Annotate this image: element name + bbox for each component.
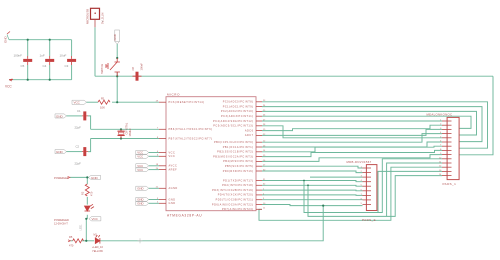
svg-text:16MHz: 16MHz: [128, 128, 132, 137]
wire: PB4 to pads1 pin9: [262, 155, 442, 162]
svg-text:GND: GND: [4, 36, 8, 44]
svg-text:MICRO: MICRO: [167, 93, 180, 97]
ground flag above switch (vertical): [113, 30, 119, 44]
wire: PB5 to mdb pin1: [262, 166, 363, 168]
wire: bottom LED rail to right and up: [100, 206, 323, 241]
wire: under-mdb wrap u1 to pads1 pin10: [304, 159, 442, 213]
MDB pin stubs: [363, 168, 372, 205]
svg-text:PD1(TXD/PCINT17): PD1(TXD/PCINT17): [223, 179, 254, 182]
wire: bottom rail left of LED: [82, 240, 94, 242]
supply VCC flag (reset pullup): [72, 100, 87, 105]
svg-text:+LED_10: +LED_10: [92, 245, 103, 249]
ground flag for C2: [55, 150, 67, 154]
svg-text:LED1: LED1: [80, 224, 83, 231]
wire: PD5 to mdb pin9 with LED junction: [262, 205, 363, 206]
svg-text:ADC6: ADC6: [245, 129, 254, 132]
svg-text:YELLOW: YELLOW: [92, 249, 103, 253]
wire: ADC6 to pads1 pin2: [262, 125, 442, 130]
wire: GND flag to GND pin 2: [149, 202, 159, 204]
svg-text:MEALONKONOC: MEALONKONOC: [427, 113, 453, 117]
svg-text:PC0(ADC0/PCINT8): PC0(ADC0/PCINT8): [223, 101, 254, 104]
resistor R2 470 (vertical): [85, 184, 89, 196]
svg-text:1uF: 1uF: [40, 54, 45, 58]
svg-text:PB3(MOSI/OC2A/PCINT3): PB3(MOSI/OC2A/PCINT3): [213, 155, 253, 158]
svg-text:C3: C3: [65, 64, 69, 68]
svg-text:22pF: 22pF: [75, 126, 82, 130]
wire: cap bank bottom rail: [9, 79, 72, 81]
wire: ADC7 to pads1 pin3: [262, 129, 442, 135]
LED1 power (vertical): [85, 204, 95, 211]
svg-text:PADS_E: PADS_E: [362, 218, 376, 222]
supply VCC bottom-left arrow: [5, 79, 13, 89]
capacitor C4: [45, 56, 54, 65]
svg-text:AVCC: AVCC: [169, 165, 178, 168]
svg-text:22pF: 22pF: [75, 162, 82, 166]
IC right pin stubs: [256, 102, 262, 210]
svg-text:VCC: VCC: [169, 151, 176, 154]
svg-text:PC1(ADC1/PCINT9): PC1(ADC1/PCINT9): [223, 105, 254, 108]
svg-text:10K: 10K: [100, 106, 105, 110]
svg-text:R5: R5: [69, 235, 73, 239]
svg-text:AGND: AGND: [169, 187, 178, 190]
wire: junction down to bottom rail: [85, 219, 87, 241]
wire: R2 to LED: [86, 197, 88, 205]
connector PADS_1: [427, 113, 460, 187]
svg-text:MICROUSB: MICROUSB: [86, 9, 90, 24]
svg-text:10uF: 10uF: [60, 54, 67, 58]
ground flag power led: [89, 175, 101, 180]
capacitor C5: [23, 56, 32, 65]
wire: XTAL1 line: [91, 128, 159, 130]
svg-text:PC4(ADC4/SDA/PCINT12): PC4(ADC4/SDA/PCINT12): [213, 120, 254, 123]
node: switch top: [116, 57, 118, 59]
svg-text:C4: C4: [43, 64, 47, 68]
svg-text:GND: GND: [137, 202, 143, 206]
wire: LED to VCC junction: [86, 215, 88, 219]
wire: PD3 to mdb pin7: [262, 194, 363, 197]
wire: VCC flag to IC VCC pin 1: [149, 152, 159, 154]
capacitor C1: [82, 111, 88, 120]
svg-text:PC2(ADC2/PCINT10): PC2(ADC2/PCINT10): [221, 110, 254, 113]
svg-text:R1: R1: [101, 97, 105, 101]
svg-text:POWERLED: POWERLED: [54, 218, 69, 222]
net arrow at R5: [68, 240, 71, 242]
wire: PB0 to pads1 pin4: [262, 134, 442, 143]
svg-text:PADS_1: PADS_1: [443, 182, 457, 186]
resistor R5 470 bottom: [73, 239, 84, 243]
capacitor C2: [82, 147, 88, 156]
svg-text:100nF: 100nF: [140, 63, 144, 71]
net POWERLED arrow label: [54, 176, 70, 180]
PADS_1 pin numbers: [439, 120, 442, 177]
svg-text:SWITCH: SWITCH: [100, 64, 104, 74]
wire: PB2 to pads1 pin7: [262, 146, 442, 152]
svg-text:PD6(AIN0/OC0A/PCINT22): PD6(AIN0/OC0A/PCINT22): [212, 203, 254, 206]
IC pin names left column: [169, 101, 213, 205]
svg-text:C2: C2: [76, 145, 80, 149]
svg-text:PB2(SS/OC1B/PCINT2): PB2(SS/OC1B/PCINT2): [217, 151, 253, 154]
wire: R5 left stub: [71, 240, 73, 242]
svg-text:GND: GND: [169, 202, 176, 205]
wire: PB6 to mdb pin2: [262, 171, 363, 173]
svg-text:R2: R2: [81, 191, 85, 195]
VCC/GND label boxes left of IC: [136, 150, 149, 205]
wire: C4 leads: [49, 40, 51, 80]
svg-text:PD0(RXD/PCINT16): PD0(RXD/PCINT16): [223, 170, 254, 173]
wire: PD4 to mdb pin8: [262, 199, 363, 201]
wire: PC4 to pads1 pin1: [262, 120, 442, 122]
wire: switch to reset vertical: [116, 72, 118, 102]
wire: resistor R1 to IC reset pin: [112, 101, 159, 103]
wire: C1 to xtal1 line: [88, 116, 91, 129]
svg-text:AREF: AREF: [169, 168, 178, 171]
wire: XTAL2 line: [91, 138, 159, 140]
svg-text:PD4(T0/XCK/PCINT20): PD4(T0/XCK/PCINT20): [218, 194, 254, 197]
origin cross: [138, 238, 143, 243]
wire: C2 gnd lead: [67, 151, 83, 153]
PADS_1 pin stubs: [442, 121, 452, 176]
svg-text:POWERLED: POWERLED: [54, 176, 69, 180]
wire: C2 to xtal2 line: [88, 139, 91, 152]
wire: PC5 steps down then to pads1 pin5: [262, 126, 442, 138]
svg-text:PD7(AIN1/PCINT23): PD7(AIN1/PCINT23): [222, 208, 254, 211]
svg-text:C1: C1: [77, 109, 81, 113]
wire: GND flag to GND pin 1: [149, 199, 159, 201]
switch S1 (reset button): [106, 58, 120, 76]
IC pin names right column: [212, 101, 254, 212]
svg-text:PB1(OC1A/PCINT1): PB1(OC1A/PCINT1): [223, 146, 254, 149]
node: xtal1 junction: [120, 128, 122, 130]
LED2 yellow (horizontal): [95, 235, 100, 244]
node: reset junction: [116, 101, 118, 103]
IC left pin numbers: [156, 101, 159, 204]
connector X1 micro USB box: [91, 8, 100, 19]
node: led vcc junction: [85, 218, 87, 220]
svg-text:ATMEGA328P-AU: ATMEGA328P-AU: [167, 214, 202, 218]
svg-text:PD5(T1/OC0B/PCINT21): PD5(T1/OC0B/PCINT21): [216, 199, 254, 202]
node: u1 tap: [303, 180, 305, 182]
node: cap rail junctions: [27, 39, 29, 41]
svg-text:C8: C8: [131, 67, 135, 71]
wire: PD2 to mdb pin6: [262, 189, 363, 192]
node: switch bottom on rail: [116, 75, 118, 77]
wire: PC2 far wrap: [262, 111, 477, 135]
svg-text:470: 470: [90, 191, 94, 196]
wire: USB 5V drop from connector to rail: [94, 27, 96, 76]
wire: PC1 far wrap: [262, 107, 482, 142]
svg-text:PB6(XTAL1/TOSC1/PCINT6): PB6(XTAL1/TOSC1/PCINT6): [169, 128, 213, 131]
wire: GND flag to AGND pin: [149, 187, 159, 189]
svg-text:C5: C5: [21, 64, 25, 68]
svg-text:VCC: VCC: [137, 155, 143, 159]
wire: PC0 far wrap: [262, 102, 488, 148]
wire: switch GND drop: [116, 44, 118, 58]
svg-text:GND: GND: [91, 176, 99, 180]
svg-text:VCC: VCC: [5, 85, 12, 89]
svg-text:12-09-GN-T: 12-09-GN-T: [54, 222, 68, 226]
wire: C3 leads: [71, 40, 73, 80]
svg-text:ADC7: ADC7: [245, 134, 254, 137]
capacitor C3: [67, 56, 76, 65]
wire: VCC flag to IC VCC pin 2: [149, 155, 159, 157]
wire: VCC flag to AREF pin: [149, 169, 159, 171]
svg-text:100nF: 100nF: [14, 54, 23, 58]
wire: VCC flag to AVCC pin: [149, 165, 159, 167]
MDB pin numbers: [361, 167, 363, 206]
node: u2 tap: [307, 184, 309, 186]
svg-text:PB5(SCK/PCINT5): PB5(SCK/PCINT5): [225, 165, 254, 168]
wire: PD0 to mdb pin4: [262, 181, 363, 182]
wire: orphan mdb pin3 feed: [310, 176, 363, 178]
IC U1 ATMEGA328P: [166, 93, 256, 218]
svg-text:PD2(INT0/PCINT18): PD2(INT0/PCINT18): [222, 184, 253, 187]
svg-text:PC6(/RESET/PCINT14): PC6(/RESET/PCINT14): [169, 101, 205, 104]
svg-text:VCC: VCC: [169, 155, 176, 158]
pin 3 of usb: [94, 19, 96, 27]
wire: under-mdb wrap u2 to pads1 pin11 and pin14: [308, 176, 442, 217]
svg-text:PD3(INT1/OC2B/PCINT19): PD3(INT1/OC2B/PCINT19): [212, 189, 253, 192]
svg-text:PB4(MISO/PCINT4): PB4(MISO/PCINT4): [223, 160, 253, 163]
svg-text:PC5(ADC5/SCL/PCINT13): PC5(ADC5/SCL/PCINT13): [213, 125, 253, 128]
svg-text:470: 470: [69, 244, 74, 248]
svg-text:GND: GND: [56, 150, 64, 154]
node: bottom rail junction: [85, 240, 87, 242]
wire: PC3 far wrap: [262, 116, 471, 128]
svg-text:PB7(XTAL2/TOSC2/PCINT7): PB7(XTAL2/TOSC2/PCINT7): [169, 137, 213, 140]
wire: PD1 to mdb pin5: [262, 184, 363, 187]
svg-text:GND: GND: [56, 114, 64, 118]
svg-text:VCC: VCC: [74, 101, 81, 105]
wire: riser to pads1 pin13: [378, 171, 442, 212]
wire: C5 leads: [27, 40, 29, 80]
svg-text:GND: GND: [113, 34, 117, 40]
svg-text:MDB-DNV34567: MDB-DNV34567: [347, 160, 372, 164]
svg-text:VCC: VCC: [92, 217, 99, 221]
wire: cap bank top rail: [9, 39, 72, 41]
wire: gnd junction down to R2: [86, 177, 88, 184]
capacitor C8 on rail: [133, 72, 142, 81]
node: xtal2 junction: [120, 137, 122, 139]
crystal Q1: [118, 129, 125, 138]
svg-text:CRYSTAL: CRYSTAL: [125, 122, 129, 134]
node: mdb pin9 wire to led rail: [322, 205, 324, 207]
ground flag for C1: [55, 114, 67, 118]
wire: riser to pads1 pin11: [387, 163, 442, 216]
resistor R1 10K: [98, 100, 110, 104]
wire: PB1 to pads1 pin6: [262, 142, 442, 147]
svg-text:VCC: VCC: [137, 168, 143, 172]
node: powerled gnd junction: [86, 176, 88, 178]
supply VCC flag bottom: [89, 217, 101, 222]
svg-text:PC3(ADC3/PCINT11): PC3(ADC3/PCINT11): [221, 115, 254, 118]
IC left pin stubs: [159, 102, 166, 203]
wire: far right wrap down from rail: [459, 76, 493, 155]
svg-text:GND: GND: [169, 198, 176, 201]
svg-text:GND: GND: [137, 187, 143, 191]
wire: reset line VCC flag to resistor: [87, 101, 99, 103]
wire: PD6 wrap under mdb to pads1 pin12: [259, 167, 442, 220]
wire: PB3 to pads1 pin8: [262, 150, 442, 156]
svg-text:PB0(ICP1/CLKO/PCINT0): PB0(ICP1/CLKO/PCINT0): [214, 141, 254, 144]
ground GND top-left arrow flag: [4, 32, 11, 44]
connector MDB (PADS_E): [347, 160, 377, 222]
wire: power led net to gnd flag: [70, 176, 88, 178]
IC right pin numbers: [263, 100, 266, 210]
wire: C1 gnd lead: [67, 115, 83, 117]
wire: reset/DTR rail: [95, 75, 493, 77]
